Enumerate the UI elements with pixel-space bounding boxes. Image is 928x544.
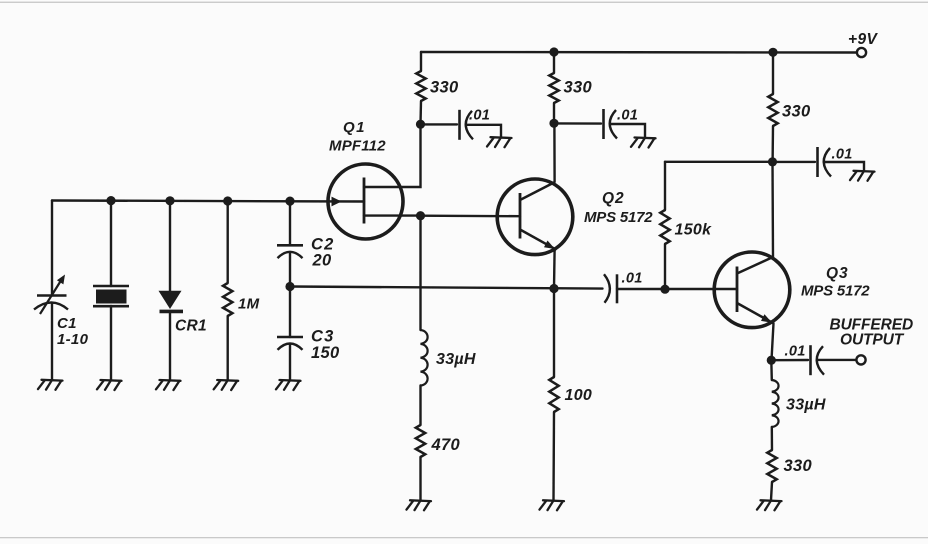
wire 330c bottom lead [771, 126, 774, 162]
wire feedback [290, 287, 603, 289]
wire 150k upper lead [664, 162, 666, 210]
wire bypass1 left lead [421, 123, 458, 125]
wire 100 bottom lead [552, 412, 555, 500]
ground 470 [407, 500, 432, 510]
wire 150k horiz [665, 161, 773, 163]
wire Q2 emitter down [553, 289, 555, 378]
resistor 330 Q1 drain [416, 71, 425, 101]
wire crystal bottom lead [110, 306, 112, 380]
wire C1 top lead [51, 201, 53, 296]
transistor Q3 MPS5172 [714, 252, 790, 328]
terminal buffered output [856, 355, 865, 364]
svg-text:OUTPUT: OUTPUT [840, 332, 905, 349]
svg-text:330: 330 [564, 79, 593, 97]
wire 330b bottom lead [553, 103, 555, 123]
node Q3 emitter output [767, 356, 776, 365]
wire CR1 top lead [169, 201, 171, 292]
svg-text:330: 330 [784, 457, 813, 475]
svg-text:1-10: 1-10 [57, 331, 89, 348]
wire coil-330d link [771, 427, 774, 450]
svg-text:C1: C1 [57, 315, 77, 332]
wire gate bus [52, 201, 364, 202]
ground bypass Q1 [487, 137, 512, 147]
svg-text:Q1: Q1 [343, 119, 366, 136]
wire bypass3 left lead [773, 161, 816, 163]
wire output left lead [771, 359, 808, 362]
wire bypass1 right lead [467, 125, 502, 137]
svg-text:CR1: CR1 [175, 318, 207, 335]
ground bypass Q3 [850, 171, 875, 181]
node 1M top [223, 196, 232, 205]
resistor 330 emitter [767, 450, 776, 482]
resistor 150k [660, 210, 669, 244]
wire Q1 drain lead [364, 124, 421, 187]
resistor 1M [223, 283, 232, 316]
resistor 470 [416, 425, 425, 457]
node Q2 collector supply tap [549, 47, 558, 56]
svg-text:150k: 150k [675, 222, 713, 239]
svg-text:20: 20 [312, 252, 332, 270]
svg-text:+9V: +9V [848, 31, 878, 48]
wire coupling to Q3 base [617, 288, 737, 290]
node Q1 drain bypass tap [416, 120, 425, 129]
svg-text:Q3: Q3 [826, 265, 849, 282]
svg-text:330: 330 [430, 79, 459, 97]
ground bypass Q2 [631, 138, 656, 148]
wire C2 top lead [289, 201, 291, 246]
svg-text:MPS 5172: MPS 5172 [584, 209, 653, 226]
ground CR1 [156, 380, 181, 390]
svg-text:.01: .01 [622, 271, 643, 287]
wire bypass2 right lead [611, 124, 646, 137]
node crystal top [106, 196, 115, 205]
ground C3 [276, 380, 301, 390]
wire 330d bottom lead [771, 482, 772, 500]
ground 1M [214, 380, 239, 390]
capacitor C2 20 [277, 244, 303, 247]
wire coil-470 link [419, 386, 421, 426]
node C2 top [285, 197, 294, 206]
transistor Q1 MPF112 JFET [328, 164, 403, 239]
svg-text:.01: .01 [469, 108, 490, 124]
capacitor .01 bypass Q1 [458, 110, 461, 140]
svg-text:MPF112: MPF112 [329, 138, 386, 155]
transistor Q2 MPS5172 [497, 179, 573, 255]
ground 100 [540, 500, 565, 510]
svg-text:100: 100 [565, 387, 593, 404]
svg-text:.01: .01 [785, 344, 806, 360]
wire +9V supply bus [421, 51, 857, 54]
svg-text:Q2: Q2 [602, 190, 625, 207]
wire 330a top lead [420, 52, 422, 71]
terminal +9V [857, 48, 866, 57]
wire Q2 emitter [553, 250, 556, 289]
border bottom edge [0, 537, 928, 538]
node Q3 supply tap [768, 48, 777, 57]
diode CR1 [159, 291, 182, 309]
svg-text:33µH: 33µH [436, 351, 476, 368]
ground C1 [38, 380, 63, 390]
node Q2 collector bypass tap [549, 119, 558, 128]
svg-text:1M: 1M [238, 296, 260, 313]
wire Q2 collector [553, 123, 556, 182]
wire Q3 emitter [772, 323, 774, 360]
wire Q3 collector [771, 162, 774, 258]
wire 330c top lead [772, 52, 774, 94]
capacitor .01 coupling [604, 274, 610, 303]
capacitor .01 bypass Q2 [602, 109, 605, 139]
wire bypass3 right lead [825, 162, 865, 170]
resistor 100 [549, 377, 558, 412]
node 150k base junction [660, 285, 669, 294]
ground 330 emitter [757, 500, 782, 510]
wire 330b top lead [553, 52, 555, 73]
wire 150k lower lead [664, 244, 666, 289]
wire bypass2 left lead [554, 122, 601, 125]
svg-text:.01: .01 [617, 108, 638, 124]
svg-text:C3: C3 [311, 328, 335, 346]
wire 330a bottom lead [419, 101, 422, 124]
wire Q1 source to coupling [421, 214, 521, 217]
svg-text:MPS 5172: MPS 5172 [801, 283, 870, 300]
resistor 330 Q2 collector [549, 73, 558, 103]
resistor 330 Q3 collector [768, 94, 777, 126]
node Q2 emitter feedback [549, 284, 558, 293]
wire 1M top lead [226, 201, 228, 284]
svg-text:470: 470 [431, 436, 461, 454]
wire Q1 source lead [364, 214, 421, 216]
crystal Y1 [93, 285, 129, 288]
svg-text:.01: .01 [832, 147, 853, 163]
capacitor C3 150 [277, 336, 303, 339]
svg-text:150: 150 [311, 344, 340, 362]
border top edge [0, 2, 928, 3]
ground crystal [97, 380, 122, 390]
wire 1M bottom lead [226, 316, 228, 380]
capacitor C1 1-10 variable [37, 294, 67, 297]
wire C2-C3 link [289, 253, 291, 337]
wire C1 bottom lead [51, 303, 53, 380]
inductor 33uH output [772, 380, 779, 427]
svg-text:33µH: 33µH [786, 397, 826, 414]
inductor 33uH osc [421, 330, 428, 386]
wire crystal top lead [110, 201, 112, 287]
node CR1 top [165, 196, 174, 205]
node Q3 collector bypass tap [768, 157, 777, 166]
node C2 C3 junction [285, 282, 294, 291]
wire 470 bottom lead [419, 457, 421, 500]
wire emitter to coil [770, 360, 773, 380]
wire Q1 source down [419, 216, 421, 330]
wire CR1 bottom lead [169, 312, 171, 380]
capacitor .01 bypass Q3 [816, 147, 819, 177]
capacitor .01 output [809, 345, 812, 375]
svg-text:330: 330 [782, 103, 811, 121]
wire C3 bottom lead [289, 345, 291, 381]
wire output right lead [818, 359, 857, 361]
node Q1 source [416, 211, 425, 220]
